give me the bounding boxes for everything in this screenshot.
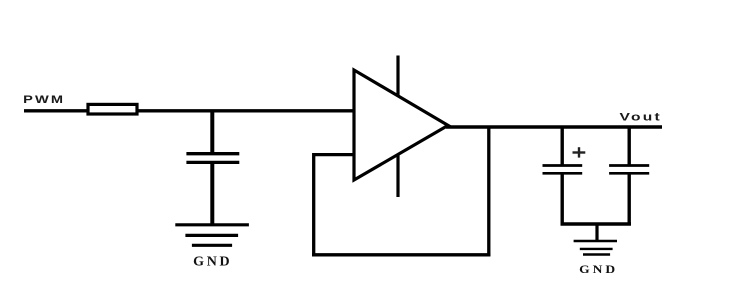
wire junction down to filter capacitor bbox=[210, 111, 214, 154]
wire PWM input to resistor bbox=[24, 109, 88, 112]
svg-text:GND: GND bbox=[193, 254, 232, 269]
resistor R1 bbox=[88, 104, 137, 114]
svg-text:Vout: Vout bbox=[620, 111, 663, 123]
power pin bottom of U1 bbox=[396, 154, 399, 197]
capacitor C1 bbox=[186, 152, 239, 155]
wire to ground (right) bbox=[595, 224, 598, 240]
wire joining C2 and C3 bottoms bbox=[561, 222, 632, 225]
wire feedback left leg bbox=[312, 153, 315, 256]
wire feedback right leg from output bbox=[487, 127, 490, 256]
polarity plus mark of C2 bbox=[573, 151, 586, 153]
capacitor C3 top lead bbox=[628, 127, 631, 166]
svg-text:GND: GND bbox=[579, 262, 618, 276]
capacitor C3 bottom lead bbox=[628, 173, 631, 224]
wire resistor to op-amp non-inverting input bbox=[137, 109, 356, 112]
svg-text:PWM: PWM bbox=[23, 94, 65, 106]
capacitor C2 (polarized) plates bbox=[543, 164, 583, 167]
wire feedback stub to inverting input bbox=[314, 153, 356, 156]
capacitor C2 top lead bbox=[561, 127, 564, 166]
wire capacitor C1 to ground bbox=[210, 162, 214, 224]
power pin top of U1 bbox=[396, 56, 399, 97]
wire feedback bottom leg bbox=[312, 253, 490, 256]
capacitor C3 plates bbox=[609, 164, 649, 167]
capacitor C2 bottom lead bbox=[561, 173, 564, 224]
op-amp U1 buffer triangle bbox=[354, 70, 448, 180]
ground symbol (right) bbox=[574, 240, 617, 242]
ground symbol (left) bbox=[175, 223, 249, 226]
wire op-amp output to Vout bbox=[446, 125, 662, 128]
